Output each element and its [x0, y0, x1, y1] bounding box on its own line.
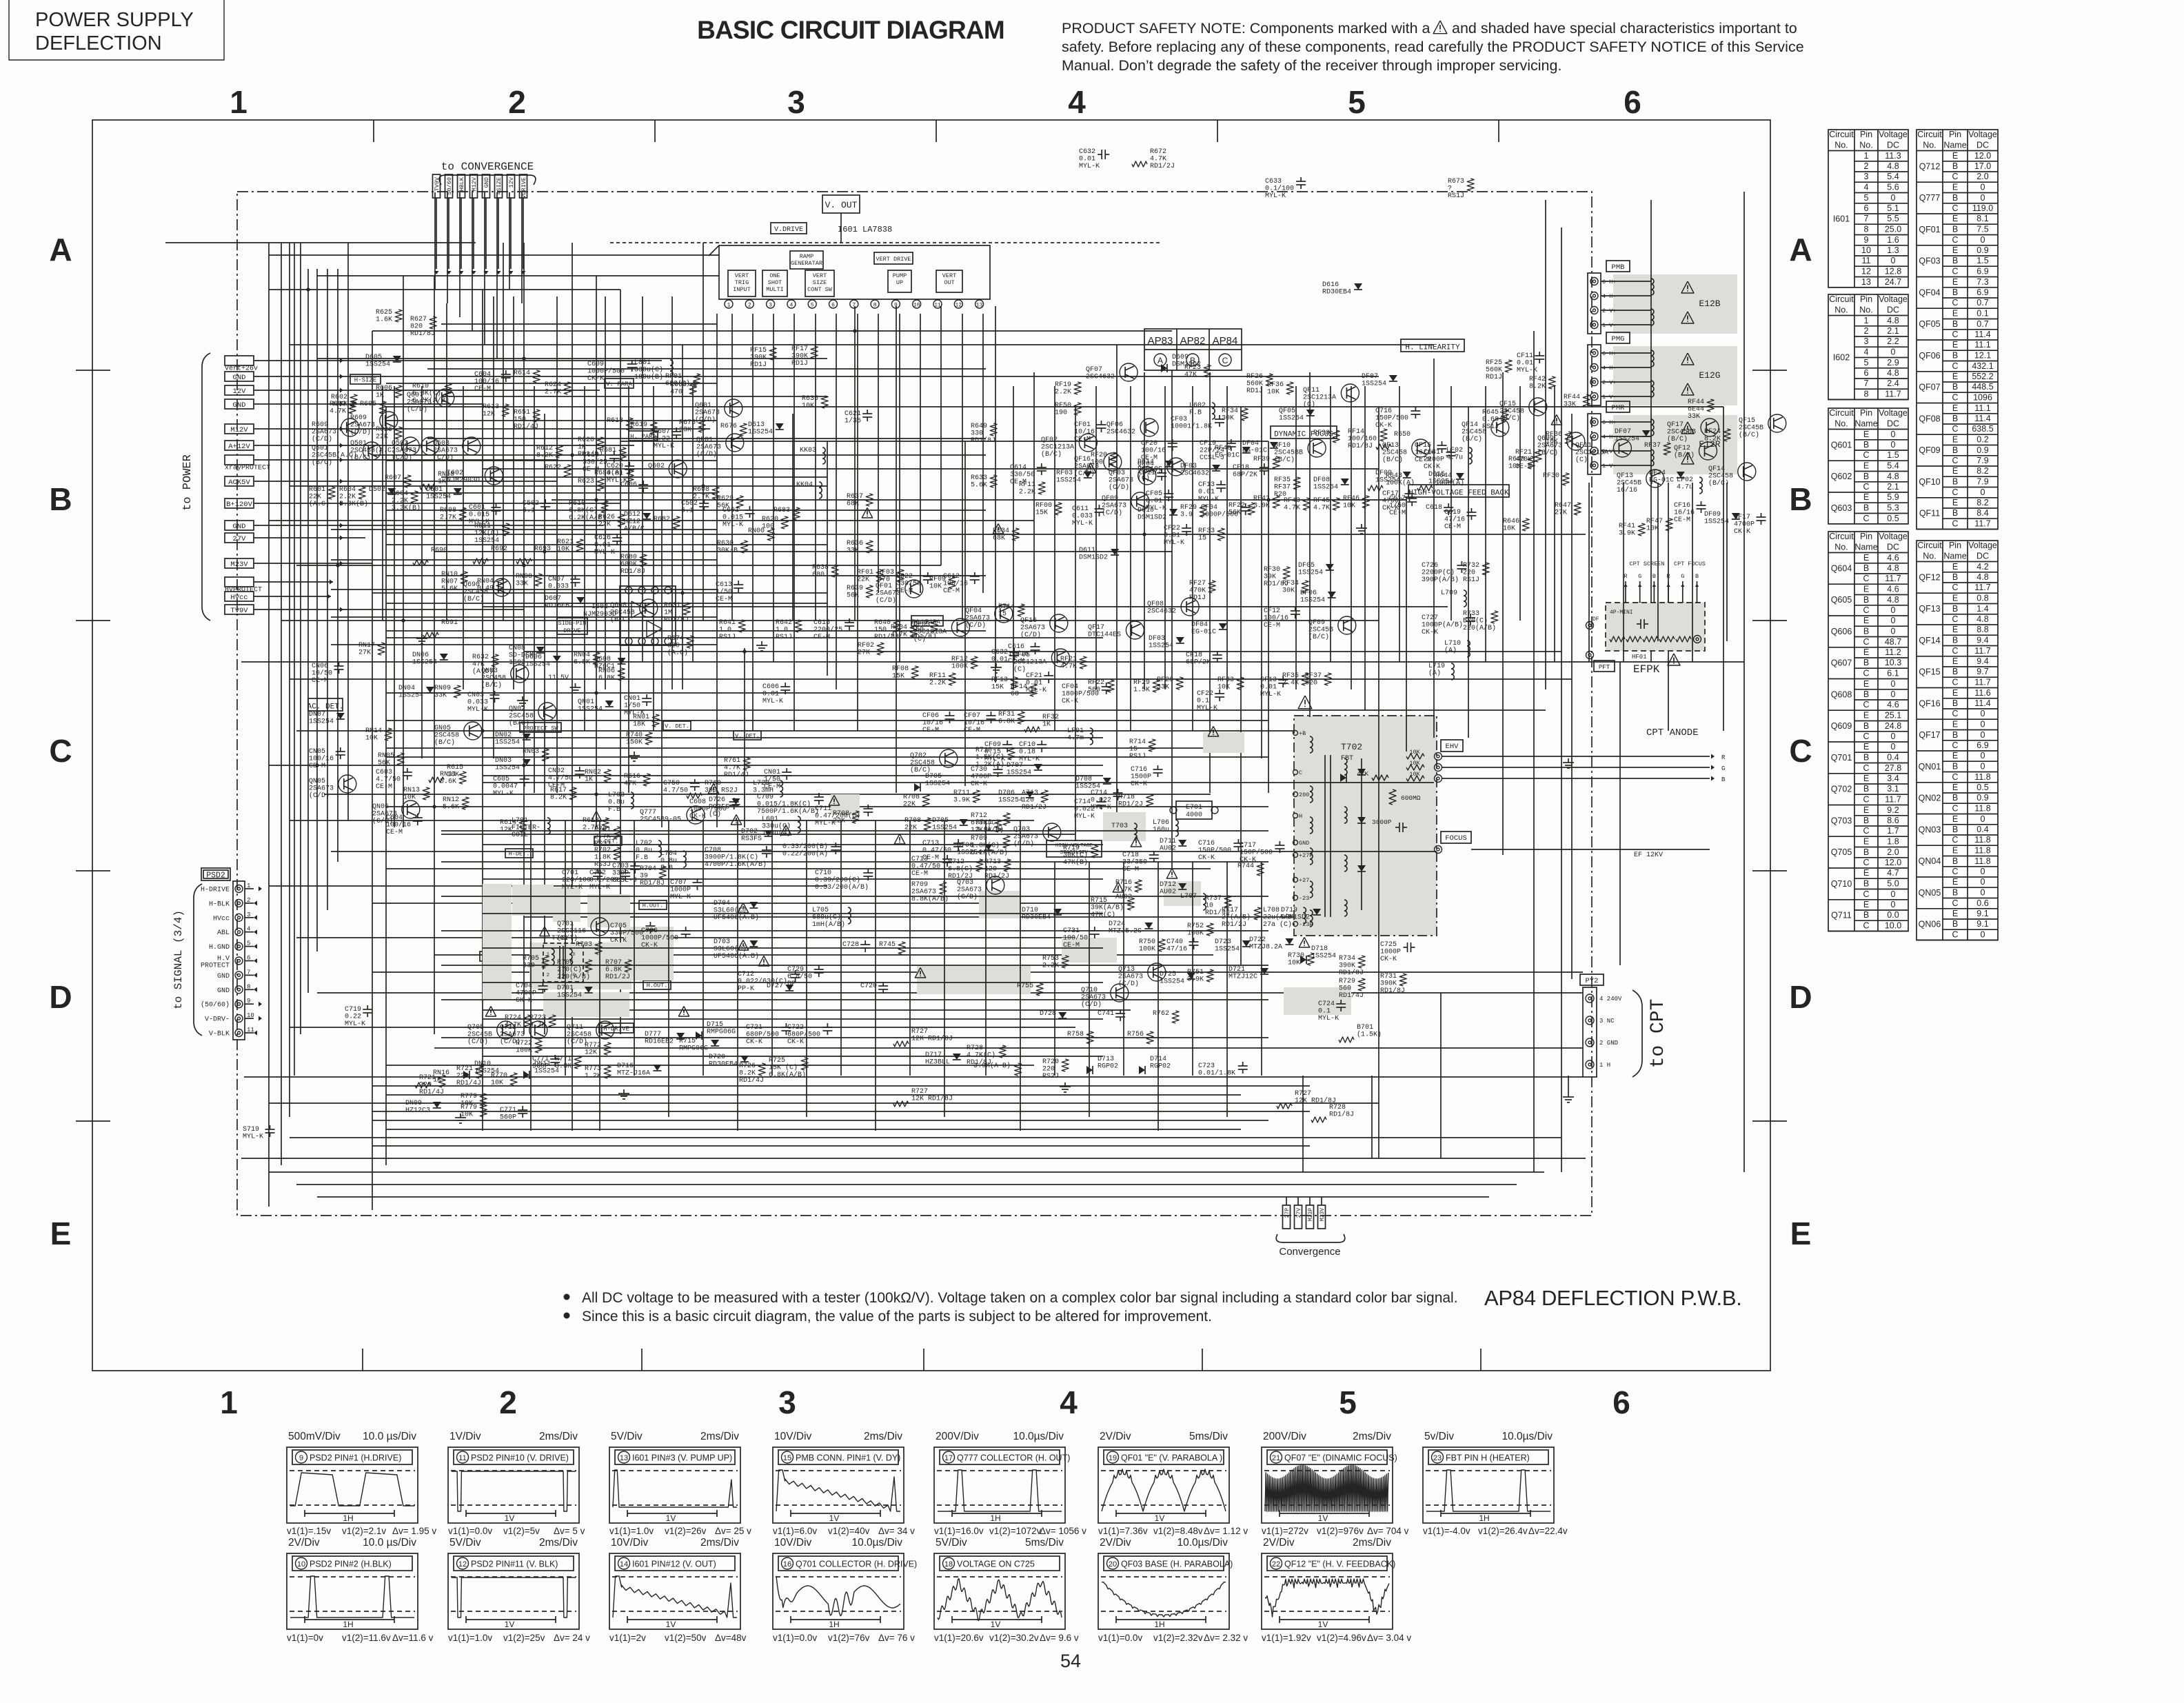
svg-text:10.0µs/Div: 10.0µs/Div — [1502, 1431, 1553, 1442]
transistor QF13 — [1617, 470, 1664, 494]
svg-text:C723: C723 — [1198, 1062, 1215, 1070]
svg-text:B: B — [1952, 667, 1958, 676]
resistor RF29 — [1133, 679, 1160, 694]
diode DN03 — [495, 757, 531, 772]
svg-text:2SC458: 2SC458 — [910, 760, 935, 767]
svg-text:GND: GND — [1299, 840, 1309, 847]
svg-text:QN04: QN04 — [1919, 856, 1941, 866]
capacitor CN08 — [509, 645, 545, 667]
resistor RN11 — [440, 771, 466, 786]
svg-text:All DC voltage to be measured: All DC voltage to be measured with a tes… — [582, 1290, 1458, 1306]
svg-text:2.2K: 2.2K — [1042, 963, 1059, 970]
svg-text:4.8: 4.8 — [1887, 161, 1899, 171]
board name AP84 DEFLECTION P.W.B. — [1484, 1286, 1742, 1310]
grid row label A left — [49, 232, 72, 268]
svg-text:1V: 1V — [505, 1513, 515, 1523]
ground symbols — [416, 524, 1574, 1123]
svg-text:3.1: 3.1 — [1887, 784, 1899, 794]
diode D607 — [545, 595, 585, 610]
inductor L703 — [608, 792, 634, 814]
svg-text:RD30EB4: RD30EB4 — [1322, 289, 1351, 296]
transistor Q701 — [557, 918, 609, 943]
resistor R621 — [557, 538, 583, 554]
svg-text:6: 6 — [831, 303, 835, 309]
svg-text:VERT: VERT — [813, 272, 827, 279]
svg-text:VERT: VERT — [735, 272, 749, 279]
svg-text:Q608: Q608 — [1831, 689, 1852, 699]
svg-text:M23V: M23V — [230, 561, 248, 569]
svg-text:HZ12: HZ12 — [624, 518, 640, 526]
svg-text:11.4: 11.4 — [1974, 414, 1990, 423]
svg-text:10K: 10K — [1343, 503, 1355, 510]
svg-text:17: 17 — [944, 1454, 953, 1462]
svg-text:MYL-K: MYL-K — [722, 521, 743, 529]
wire mesh vertical runs — [269, 192, 1744, 1210]
svg-text:Δv=48v: Δv=48v — [715, 1633, 747, 1643]
svg-text:4.7/50: 4.7/50 — [663, 787, 688, 795]
svg-text:v1(2)=25v: v1(2)=25v — [503, 1633, 545, 1643]
svg-text:560K: 560K — [1246, 381, 1263, 388]
svg-text:RGP02: RGP02 — [1150, 1063, 1171, 1071]
voltage table QF12-QN06 — [1917, 541, 1998, 940]
svg-text:Q703: Q703 — [1013, 826, 1030, 834]
svg-text:1 V-: 1 V- — [1602, 394, 1616, 401]
svg-text:Q602: Q602 — [648, 463, 665, 470]
svg-text:R620: R620 — [762, 516, 778, 523]
svg-text:R760: R760 — [705, 780, 721, 787]
svg-text:RF42: RF42 — [1529, 376, 1546, 383]
svg-text:11.2: 11.2 — [1885, 647, 1901, 657]
diode D606 — [525, 654, 561, 669]
power input HVPROTECT — [225, 577, 333, 594]
svg-text:10K: 10K — [461, 1111, 473, 1119]
svg-text:D616: D616 — [1322, 281, 1339, 289]
svg-text:C: C — [1952, 519, 1958, 529]
svg-text:R710: R710 — [975, 747, 992, 754]
T702 rectifier diode stack — [1357, 758, 1366, 910]
resistor R617 — [550, 787, 576, 802]
shaded safety area E12B — [1613, 274, 1737, 334]
svg-text:RF27: RF27 — [1189, 580, 1206, 587]
svg-text:27K: 27K — [358, 649, 371, 657]
capacitor C608 — [689, 798, 739, 820]
svg-text:DN11: DN11 — [534, 1060, 551, 1068]
svg-text:CK-K: CK-K — [1062, 698, 1078, 705]
svg-text:v1(1)=0.0v: v1(1)=0.0v — [448, 1526, 492, 1536]
svg-text:2: 2 — [547, 973, 549, 978]
waveform thumbnail 13 I601 PIN#3 (V. PUMP UP) — [609, 1431, 751, 1536]
svg-text:R651: R651 — [514, 409, 530, 416]
svg-text:PMB: PMB — [1612, 263, 1625, 272]
diode D605 — [365, 354, 401, 369]
svg-text:QF15: QF15 — [1739, 417, 1755, 425]
svg-text:1K: 1K — [1042, 721, 1051, 729]
svg-text:0.22: 0.22 — [654, 436, 670, 443]
resistor R727 — [1277, 1090, 1336, 1109]
diode D725 — [1160, 971, 1195, 986]
transistor Q608 — [610, 599, 658, 624]
resistor R648 — [1508, 456, 1535, 471]
svg-text:R650: R650 — [1394, 431, 1410, 439]
svg-text:T702: T702 — [1341, 742, 1362, 752]
transistor QN05 — [309, 775, 356, 800]
svg-text:E: E — [1863, 679, 1869, 689]
svg-text:ACK5V: ACK5V — [228, 478, 250, 487]
svg-text:1.8K(C): 1.8K(C) — [971, 842, 1000, 850]
convergence pin TV9V — [433, 174, 441, 274]
svg-text:+B: +B — [1299, 730, 1306, 737]
bracket to SIGNAL (3/4) — [172, 884, 202, 1036]
svg-text:10: 10 — [1205, 903, 1213, 910]
svg-text:R719: R719 — [1063, 845, 1080, 852]
svg-text:v1(2)=8.48v: v1(2)=8.48v — [1153, 1526, 1203, 1536]
resistor R601 — [309, 486, 335, 508]
svg-text:2SC1213A: 2SC1213A — [1013, 659, 1046, 667]
svg-text:5ms/Div: 5ms/Div — [1189, 1431, 1228, 1442]
svg-text:E: E — [1952, 403, 1958, 413]
svg-text:D611: D611 — [1079, 547, 1095, 554]
svg-text:220: 220 — [1042, 1066, 1055, 1074]
svg-text:Δv= 76 v: Δv= 76 v — [878, 1633, 915, 1643]
svg-text:390K: 390K — [1339, 963, 1355, 970]
svg-text:2V/Div: 2V/Div — [1100, 1537, 1131, 1549]
transistor QF05 — [1013, 649, 1069, 674]
svg-text:A+12V: A+12V — [228, 443, 250, 451]
svg-text:C621: C621 — [845, 410, 861, 418]
svg-text:2SC45B9-05: 2SC45B9-05 — [640, 816, 681, 824]
svg-text:3.9K: 3.9K — [1187, 976, 1204, 984]
resistor RF34 — [1222, 407, 1248, 423]
svg-text:C604: C604 — [474, 371, 491, 379]
svg-text:C726: C726 — [1422, 562, 1438, 570]
svg-text:2.2K: 2.2K — [1055, 389, 1071, 396]
transistor Q501 — [350, 437, 419, 462]
resistor R721 — [419, 1074, 445, 1096]
svg-text:Q777: Q777 — [640, 809, 656, 816]
svg-text:RF01: RF01 — [665, 373, 682, 381]
svg-text:DSM1SD2: DSM1SD2 — [1281, 914, 1310, 922]
svg-text:E: E — [1952, 877, 1958, 887]
svg-text:G: G — [1638, 573, 1641, 580]
svg-text:1SS254: 1SS254 — [474, 537, 499, 545]
svg-text:M12V: M12V — [230, 426, 248, 434]
diode D717 — [925, 1051, 961, 1067]
svg-text:220: 220 — [419, 1082, 432, 1089]
svg-text:CE-M: CE-M — [764, 783, 780, 791]
svg-text:47K: 47K — [1184, 372, 1197, 379]
svg-text:47/16: 47/16 — [1166, 945, 1187, 954]
svg-text:2SA673: 2SA673 — [433, 447, 458, 455]
svg-text:MYL-K: MYL-K — [1026, 687, 1046, 694]
svg-text:R755: R755 — [1017, 982, 1033, 990]
I601 internal block VERT DRIVE — [874, 252, 913, 264]
capacitor C622 — [896, 572, 933, 595]
svg-text:CF11: CF11 — [1517, 352, 1533, 360]
svg-text:2: 2 — [508, 84, 526, 120]
svg-text:QN05: QN05 — [1919, 888, 1941, 898]
svg-text:100/160: 100/160 — [1348, 435, 1377, 443]
svg-text:PSD2 PIN#10 (V. DRIVE): PSD2 PIN#10 (V. DRIVE) — [471, 1453, 569, 1463]
diode D502 — [369, 486, 396, 494]
svg-text:S3L60(C): S3L60(C) — [714, 945, 747, 954]
svg-text:No.: No. — [1923, 552, 1936, 561]
function label box V. DET. — [734, 731, 761, 740]
svg-text:6.1: 6.1 — [681, 507, 694, 515]
diode D727 — [767, 982, 793, 991]
svg-text:68P/2K: 68P/2K — [1233, 471, 1257, 479]
svg-text:12: 12 — [955, 303, 962, 309]
resistor R631 — [664, 602, 690, 624]
svg-text:33K: 33K — [434, 692, 447, 700]
resistor R737 — [1205, 895, 1231, 917]
svg-text:(C/D): (C/D) — [957, 893, 978, 901]
resistor R734 — [1339, 955, 1365, 977]
svg-text:G: G — [1721, 765, 1725, 772]
svg-text:MYL-K: MYL-K — [243, 1133, 263, 1141]
wire mesh extra vertical runs — [383, 296, 1727, 1172]
svg-text:2SA673: 2SA673 — [1020, 625, 1045, 632]
svg-text:(A.C): (A.C) — [309, 500, 330, 508]
svg-text:R612: R612 — [536, 445, 553, 452]
capacitor C612 — [943, 572, 980, 595]
svg-text:H.GND: H.GND — [209, 944, 230, 951]
capacitor CF22 — [1164, 524, 1191, 547]
transistor Q702 — [910, 749, 958, 774]
svg-text:Q710: Q710 — [1831, 879, 1852, 889]
svg-text:C: C — [1952, 583, 1958, 592]
svg-text:C750: C750 — [663, 780, 680, 787]
function label box PROTECT SW — [520, 723, 561, 732]
svg-text:1SS254: 1SS254 — [495, 765, 520, 772]
svg-text:C713: C713 — [922, 840, 939, 847]
svg-text:R728: R728 — [967, 1045, 983, 1052]
svg-text:TV9V: TV9V — [434, 177, 441, 191]
svg-text:2: 2 — [1864, 326, 1869, 336]
svg-text:10: 10 — [1861, 245, 1871, 255]
svg-text:11.7: 11.7 — [1974, 519, 1990, 529]
svg-text:8.6: 8.6 — [1887, 816, 1899, 825]
svg-text:Q701: Q701 — [1831, 753, 1852, 763]
resistor R644 — [1417, 472, 1464, 491]
svg-text:820: 820 — [410, 323, 423, 331]
svg-text:B: B — [1863, 753, 1869, 763]
svg-text:E: E — [1790, 1216, 1812, 1251]
svg-text:QF04: QF04 — [1137, 461, 1154, 468]
svg-text:DEFLECTION: DEFLECTION — [35, 32, 162, 54]
resistor R630 — [717, 540, 748, 555]
resistor RF31 — [998, 711, 1024, 726]
diode D615 — [1428, 471, 1464, 486]
svg-text:5V/Div: 5V/Div — [449, 1537, 481, 1549]
svg-text:MYL-K: MYL-K — [762, 698, 783, 705]
svg-text:Circuit: Circuit — [1829, 130, 1854, 139]
resistor R606 — [376, 385, 402, 400]
svg-text:E: E — [1952, 309, 1958, 319]
svg-text:R779: R779 — [461, 1104, 477, 1111]
svg-text:(C): (C) — [1303, 401, 1315, 409]
svg-text:R638: R638 — [812, 564, 829, 572]
svg-text:LF02: LF02 — [1677, 476, 1693, 484]
waveform thumbnail 17 Q777 COLLECTOR (H. OUT) — [934, 1431, 1086, 1536]
svg-text:C725: C725 — [1380, 941, 1397, 949]
resistor R604 — [392, 490, 421, 512]
svg-text:R712: R712 — [971, 812, 987, 820]
svg-text:Circuit: Circuit — [1829, 408, 1854, 418]
svg-text:C727: C727 — [1422, 614, 1438, 622]
svg-text:7: 7 — [1864, 214, 1869, 223]
svg-text:GND: GND — [233, 374, 246, 382]
resistor R703 — [576, 941, 602, 954]
svg-text:CPT SCREEN: CPT SCREEN — [1629, 561, 1664, 567]
svg-text:C616: C616 — [1008, 643, 1024, 651]
svg-text:R733: R733 — [1463, 610, 1479, 618]
resistor RN18 — [420, 471, 454, 490]
svg-text:RD1J: RD1J — [1486, 374, 1502, 381]
svg-text:CPT ANODE: CPT ANODE — [1646, 727, 1699, 738]
svg-text:10.0µs/Div: 10.0µs/Div — [851, 1537, 902, 1549]
svg-text:C705: C705 — [610, 923, 627, 930]
svg-text:C771: C771 — [500, 1107, 516, 1114]
svg-text:B: B — [1863, 503, 1869, 513]
connector EFPK focus pack with CPT SCREEN / CPT FOCUS terminals — [1606, 561, 1706, 676]
svg-text:B: B — [1863, 910, 1869, 920]
svg-text:RN10: RN10 — [441, 571, 458, 578]
svg-text:150P/500: 150P/500 — [1240, 849, 1273, 857]
svg-text:2SC458: 2SC458 — [509, 713, 534, 720]
svg-text:R623: R623 — [578, 478, 594, 485]
svg-text:2SC4632: 2SC4632 — [1086, 374, 1115, 381]
svg-text:B: B — [1863, 721, 1869, 731]
svg-text:RF25: RF25 — [1486, 359, 1502, 367]
svg-text:(C): (C) — [913, 635, 926, 643]
svg-text:+27: +27 — [1299, 877, 1309, 884]
svg-text:4.8: 4.8 — [1887, 595, 1899, 605]
svg-text:2SA673: 2SA673 — [392, 447, 416, 455]
svg-text:MTZJ8.2A: MTZJ8.2A — [1249, 944, 1282, 951]
svg-text:V. OUT: V. OUT — [825, 200, 858, 210]
svg-text:68K: 68K — [993, 535, 1005, 543]
svg-text:Δv=22.4v: Δv=22.4v — [1528, 1526, 1568, 1536]
svg-text:6.8K(A/B): 6.8K(A/B) — [769, 1071, 806, 1079]
resistor RF22 — [1228, 502, 1255, 517]
diode D616 — [1322, 281, 1362, 296]
transformer T701 dashed outline — [540, 927, 583, 982]
connector PY2 label — [1580, 974, 1604, 985]
EHV terminal resistors 10K — [1406, 749, 1442, 783]
svg-text:B: B — [1952, 351, 1958, 361]
svg-text:30K(C): 30K(C) — [1063, 851, 1088, 860]
svg-text:B: B — [1863, 658, 1869, 667]
svg-text:11.7: 11.7 — [1885, 795, 1901, 805]
svg-text:C: C — [1952, 456, 1958, 465]
label V.DRIVE and IC name I601 LA7838 — [771, 223, 892, 234]
svg-text:B: B — [1952, 225, 1958, 234]
svg-text:C: C — [1863, 826, 1869, 836]
svg-text:QF11: QF11 — [1303, 387, 1319, 394]
I601 pin 5 — [808, 299, 816, 309]
inductor L720 — [753, 780, 783, 797]
svg-text:8.2K: 8.2K — [1704, 436, 1721, 443]
function label box H-DET. — [505, 849, 533, 858]
svg-text:C701: C701 — [562, 869, 578, 877]
svg-text:CK-K: CK-K — [787, 1038, 804, 1046]
svg-text:B: B — [1863, 784, 1869, 794]
T702 pin C — [1293, 769, 1303, 776]
svg-text:1V: 1V — [1318, 1620, 1328, 1629]
svg-text:3: 3 — [572, 952, 575, 958]
capacitor 3000P — [1372, 818, 1407, 832]
function label box H. PARA — [629, 431, 658, 441]
convergence pin VDRIVE — [520, 174, 528, 274]
resistor R708 — [833, 810, 859, 825]
capacitor C708 — [705, 846, 771, 869]
svg-text:B: B — [1952, 288, 1958, 297]
svg-text:CK-K: CK-K — [1198, 854, 1215, 862]
svg-text:4: 4 — [1864, 183, 1869, 192]
part 0.33/200(B) — [782, 843, 840, 858]
resistor RF45 — [1313, 497, 1339, 512]
svg-text:1V: 1V — [666, 1620, 676, 1629]
capacitor C722 — [787, 1023, 832, 1046]
resistor RN01 — [633, 714, 659, 729]
net label E12R — [1699, 439, 1720, 450]
capacitor CF22 — [1197, 689, 1224, 712]
wire mesh horizontal runs — [165, 243, 1744, 1197]
capacitor C621 — [845, 410, 872, 425]
svg-text:E: E — [1952, 751, 1958, 760]
transistor QF04 — [1137, 458, 1185, 483]
svg-text:R734: R734 — [1339, 955, 1355, 963]
I601 internal block ONE SHOT MULTI — [762, 270, 787, 296]
svg-text:560: 560 — [1339, 985, 1351, 993]
svg-text:CE-M: CE-M — [1674, 516, 1690, 524]
svg-text:12: 12 — [1861, 267, 1871, 276]
part T703 — [1111, 823, 1137, 840]
svg-text:12: 12 — [458, 1560, 467, 1569]
svg-text:1SS254: 1SS254 — [1149, 643, 1173, 650]
svg-text:8: 8 — [873, 303, 877, 309]
capacitor CF16 — [1674, 501, 1706, 524]
svg-text:PROTECT: PROTECT — [201, 963, 230, 970]
svg-text:D605: D605 — [365, 354, 382, 361]
svg-text:MYL-K: MYL-K — [1265, 192, 1286, 200]
resistor R740 — [626, 732, 652, 747]
resistor RF13 — [991, 676, 1018, 692]
svg-text:470K: 470K — [1515, 456, 1532, 464]
svg-text:2SA673: 2SA673 — [372, 811, 397, 818]
svg-text:C718: C718 — [1122, 851, 1139, 859]
transistor QN06 — [372, 800, 420, 825]
svg-text:100/16: 100/16 — [1141, 447, 1166, 455]
resistor RF44 — [1688, 399, 1714, 421]
svg-text:RD1/4J: RD1/4J — [724, 771, 749, 779]
svg-text:0: 0 — [1891, 889, 1896, 899]
svg-text:Q777: Q777 — [1919, 193, 1941, 203]
svg-text:0.9: 0.9 — [1976, 793, 1988, 803]
svg-text:HF01: HF01 — [1632, 654, 1647, 661]
svg-text:RD1/8J: RD1/8J — [1380, 987, 1405, 995]
svg-text:B: B — [1863, 816, 1869, 825]
svg-text:1H: 1H — [343, 1513, 353, 1523]
svg-text:560K: 560K — [1486, 367, 1502, 374]
svg-text:DF08: DF08 — [1313, 476, 1330, 484]
inductor L706 — [1153, 819, 1178, 836]
resistor RF21 — [1060, 656, 1086, 671]
svg-text:16/16: 16/16 — [1674, 509, 1695, 517]
svg-text:47K(B): 47K(B) — [1063, 858, 1088, 867]
svg-text:C: C — [1952, 361, 1958, 371]
deflection coil pair E12B — [1601, 279, 1654, 325]
